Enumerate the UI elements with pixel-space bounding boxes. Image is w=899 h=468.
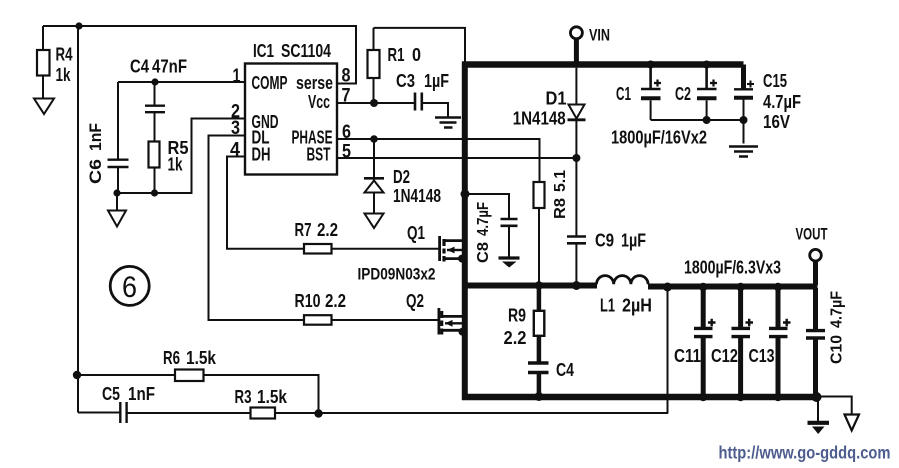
- node Vcc / R1: [370, 99, 378, 107]
- svg-text:D1: D1: [546, 89, 567, 109]
- svg-text:C5: C5: [102, 384, 120, 404]
- wire DH pin4 to R7: [227, 157, 440, 249]
- capacitor C10 4.7uF: [806, 288, 846, 394]
- resistor R1 0: [368, 28, 422, 103]
- svg-text:1µF: 1µF: [621, 231, 646, 251]
- wire C8 tap from bus: [465, 194, 509, 219]
- svg-text:VIN: VIN: [589, 26, 610, 45]
- svg-text:4.7µF: 4.7µF: [475, 202, 492, 236]
- pin 1: [233, 66, 241, 87]
- svg-text:C4: C4: [556, 360, 574, 380]
- pin 8: [342, 66, 351, 87]
- svg-text:1800µF/16Vx2: 1800µF/16Vx2: [611, 128, 707, 148]
- node C11 top: [699, 283, 707, 291]
- svg-text:R10: R10: [295, 291, 321, 311]
- ground below C15 earth: [729, 147, 758, 157]
- wire feedback bottom line: [78, 412, 668, 415]
- node C12 bottom: [736, 393, 744, 401]
- wire VOUT stub: [813, 261, 818, 285]
- svg-text:1µF: 1µF: [424, 71, 449, 91]
- node Q1 source: [458, 255, 466, 263]
- label IPD09N03x2: [358, 265, 436, 284]
- capacitor C9 1uF: [567, 231, 646, 283]
- node C2 bottom: [703, 116, 711, 124]
- op-amp U1 IC1 SC1104 box: [245, 41, 337, 175]
- svg-text:C12: C12: [711, 346, 738, 366]
- pin 5: [342, 142, 351, 163]
- resistor R4: [37, 26, 73, 98]
- wire VIN thick top bus: [462, 61, 744, 68]
- svg-text:C10: C10: [829, 335, 846, 364]
- node VIN terminal: [570, 26, 610, 45]
- svg-text:Q2: Q2: [406, 291, 424, 311]
- resistor R7 2.2: [295, 220, 339, 254]
- resistor R5 1k: [149, 113, 189, 194]
- node R5 bottom: [151, 189, 158, 196]
- svg-text:L1: L1: [600, 296, 615, 316]
- svg-text:6: 6: [122, 271, 137, 304]
- capacitor C4 bottom: [528, 360, 574, 394]
- svg-text:4.7µF: 4.7µF: [763, 92, 801, 112]
- wire top rail from R4/junction to pin8 drop: [43, 26, 356, 84]
- node Q2 source: [459, 328, 467, 336]
- node C15 bottom: [740, 116, 748, 124]
- svg-text:SC1104: SC1104: [281, 41, 331, 61]
- wire PHASE pin6: [337, 139, 540, 182]
- svg-text:DH: DH: [252, 145, 271, 165]
- capacitor C12: [711, 288, 753, 394]
- svg-text:C9: C9: [595, 231, 614, 251]
- svg-text:1: 1: [233, 66, 241, 87]
- capacitor C13: [749, 288, 791, 394]
- node D2 tap: [370, 135, 378, 143]
- ground C3 earth: [435, 118, 461, 128]
- node C11 bottom: [699, 393, 707, 401]
- node C9 mid: [572, 281, 581, 290]
- svg-text:C13: C13: [749, 346, 775, 366]
- wire DL pin3 to R10: [209, 136, 439, 321]
- wire to right ground: [818, 397, 852, 415]
- wire left vertical rail: [77, 26, 79, 413]
- svg-text:2.2: 2.2: [325, 291, 346, 311]
- svg-text:R1: R1: [388, 45, 405, 65]
- node C13 bottom: [774, 393, 782, 401]
- wire mid rail left: [462, 283, 597, 289]
- svg-text:COMP: COMP: [252, 73, 288, 93]
- diode D1 1N4148: [513, 68, 586, 158]
- svg-text:C8: C8: [475, 242, 492, 263]
- svg-text:IC1: IC1: [253, 41, 274, 61]
- wire R1 top to VIN bus corner: [374, 28, 466, 62]
- svg-text:R4: R4: [56, 45, 73, 65]
- capacitor C1: [616, 68, 661, 120]
- svg-text:R9: R9: [508, 306, 526, 326]
- transistor Q1: [407, 223, 462, 262]
- svg-text:1nF: 1nF: [86, 123, 105, 151]
- capacitor C3 1uF: [396, 71, 449, 117]
- svg-text:16V: 16V: [763, 112, 790, 132]
- capacitor C5 1nF: [102, 384, 155, 423]
- pin 7: [342, 86, 351, 107]
- svg-text:1.5k: 1.5k: [186, 348, 217, 368]
- svg-text:4.7µF: 4.7µF: [829, 291, 846, 328]
- svg-text:C1: C1: [616, 84, 631, 104]
- svg-text:C4: C4: [130, 57, 149, 77]
- node R6/R3 junction: [314, 409, 322, 417]
- wire GND pin2 return: [117, 119, 245, 194]
- node C4 bottom rail: [534, 392, 543, 401]
- node C4 tap: [151, 78, 158, 85]
- wire BST pin5: [337, 157, 576, 159]
- svg-text:Q1: Q1: [407, 223, 425, 243]
- capacitor C11: [674, 288, 716, 394]
- svg-text:C6: C6: [86, 159, 105, 184]
- node R8/R9 mid: [535, 281, 543, 289]
- node C13 top: [774, 283, 782, 291]
- node C1 top: [647, 61, 655, 69]
- svg-text:C11: C11: [674, 346, 701, 366]
- svg-text:47nF: 47nF: [152, 57, 187, 77]
- node VOUT terminal: [796, 225, 828, 262]
- svg-text:Vcc: Vcc: [308, 92, 330, 112]
- node schematic number 6: [110, 266, 149, 305]
- svg-text:C15: C15: [763, 71, 787, 91]
- svg-text:1N4148: 1N4148: [393, 186, 441, 206]
- pin 2: [231, 102, 240, 123]
- transistor Q2: [406, 291, 462, 335]
- node C6 bottom: [113, 189, 120, 196]
- svg-text:http://www.go-gddq.com: http://www.go-gddq.com: [719, 443, 891, 463]
- capacitor C2: [675, 68, 717, 120]
- label website: [719, 443, 891, 463]
- ground below rail end: [808, 399, 830, 434]
- svg-text:2.2: 2.2: [504, 328, 527, 348]
- svg-text:1N4148: 1N4148: [513, 109, 566, 129]
- ground below D2: [365, 214, 384, 229]
- svg-text:C3: C3: [396, 71, 415, 91]
- svg-text:5: 5: [342, 142, 351, 163]
- svg-text:R3: R3: [235, 387, 252, 407]
- inductor L1 2uH: [597, 276, 653, 316]
- wire R6 line: [77, 375, 319, 414]
- pin 3: [231, 118, 240, 139]
- wire mid rail right / VOUT rail: [648, 284, 818, 290]
- wire COMP pin1: [118, 81, 245, 83]
- capacitor C15 4.7uF 16V: [734, 65, 801, 144]
- label 1800uF/16Vx2: [611, 128, 707, 148]
- wire D1 down to C9: [575, 158, 577, 236]
- svg-text:R6: R6: [163, 348, 180, 368]
- capacitor C4 47nF: [130, 57, 187, 113]
- svg-text:VOUT: VOUT: [796, 225, 828, 244]
- resistor R3 1.5k: [235, 387, 288, 419]
- node C12 top: [736, 283, 744, 291]
- svg-text:C2: C2: [675, 84, 691, 104]
- ground below R4: [34, 99, 54, 115]
- resistor R8 5.1: [534, 170, 570, 283]
- svg-text:0: 0: [412, 45, 421, 65]
- ground right open triangle: [845, 415, 860, 431]
- node BST / D1: [572, 154, 580, 162]
- diode D2 1N4148: [364, 139, 441, 213]
- svg-text:5.1: 5.1: [552, 170, 569, 192]
- label 1800uF/6.3Vx3: [684, 258, 781, 278]
- node C8 tap: [461, 190, 470, 199]
- svg-text:1k: 1k: [56, 65, 72, 85]
- svg-text:BST: BST: [307, 145, 331, 165]
- pin 4: [230, 140, 240, 161]
- wire bottom thick rail: [462, 394, 818, 401]
- svg-text:8: 8: [342, 66, 351, 87]
- wire feedback vertical from VOUT rail: [667, 287, 669, 414]
- svg-text:2.2: 2.2: [317, 220, 338, 240]
- svg-text:serse: serse: [296, 73, 333, 93]
- svg-text:1k: 1k: [168, 155, 184, 175]
- node left rail R6: [73, 371, 81, 379]
- wire VIN stub: [574, 39, 579, 64]
- node junction top-left: [75, 22, 82, 29]
- resistor R6 1.5k: [163, 348, 217, 381]
- wire Vcc pin7: [337, 102, 415, 104]
- svg-text:1800µF/6.3Vx3: 1800µF/6.3Vx3: [684, 258, 781, 278]
- svg-text:1nF: 1nF: [128, 384, 155, 404]
- wire C1-C2-C15 bottom link: [651, 119, 744, 121]
- svg-text:R7: R7: [295, 220, 312, 240]
- ground below C6: [108, 193, 126, 227]
- resistor R9 2.2: [504, 288, 545, 363]
- node bottom rail end: [812, 392, 822, 402]
- svg-text:R8: R8: [552, 198, 569, 219]
- ground C8 bar: [499, 258, 520, 268]
- node C2 top: [703, 61, 711, 69]
- capacitor C6 1nF: [86, 82, 129, 193]
- capacitor C8 4.7uF: [475, 202, 518, 263]
- svg-text:D2: D2: [393, 167, 410, 187]
- resistor R10 2.2: [295, 291, 347, 325]
- svg-text:2µH: 2µH: [622, 296, 652, 316]
- wire thick vertical bus: [462, 62, 468, 401]
- pin 6: [342, 122, 351, 143]
- svg-text:IPD09N03x2: IPD09N03x2: [358, 265, 436, 284]
- svg-text:1.5k: 1.5k: [257, 387, 288, 407]
- node feedback tap: [663, 283, 672, 292]
